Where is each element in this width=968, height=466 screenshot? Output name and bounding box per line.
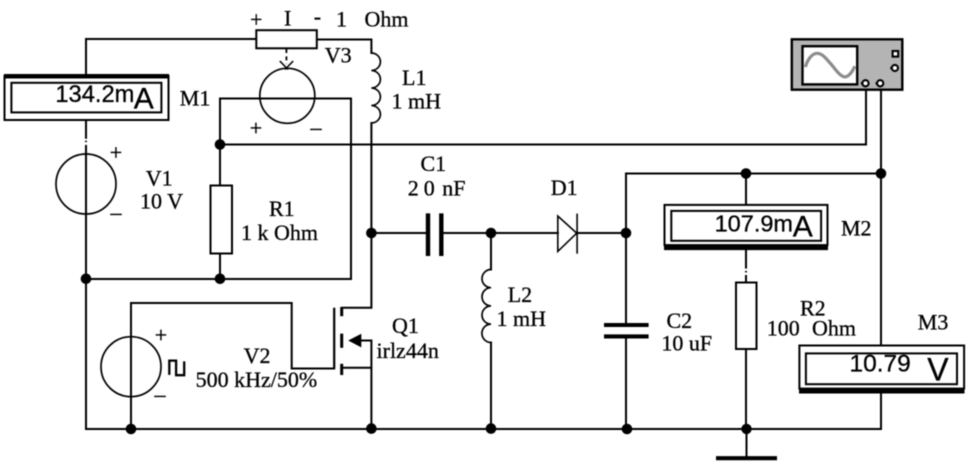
svg-text:–: – [110, 200, 123, 225]
svg-text:10 V: 10 V [140, 189, 183, 214]
svg-text:M2: M2 [841, 215, 872, 240]
svg-text:A: A [793, 211, 813, 244]
svg-text:irlz44n: irlz44n [377, 338, 439, 363]
svg-text:107.9m: 107.9m [715, 211, 793, 237]
svg-text:M1: M1 [180, 86, 211, 111]
svg-text:L1: L1 [402, 65, 426, 90]
svg-text:A: A [134, 83, 154, 116]
svg-text:0: 0 [424, 175, 435, 200]
svg-text:100: 100 [767, 316, 800, 341]
svg-text:+: + [250, 116, 262, 141]
svg-text:V: V [927, 352, 949, 388]
svg-text:C2: C2 [667, 308, 693, 333]
svg-text:–: – [310, 115, 323, 140]
svg-text:D1: D1 [551, 175, 578, 200]
svg-text:1: 1 [336, 7, 347, 32]
svg-text:V2: V2 [244, 343, 271, 368]
svg-text:-: - [314, 4, 321, 29]
svg-text:+: + [110, 140, 122, 165]
svg-text:Ohm: Ohm [365, 7, 409, 32]
svg-text:–: – [154, 382, 167, 407]
svg-text:10 uF: 10 uF [661, 330, 712, 355]
svg-text:Q1: Q1 [392, 313, 419, 338]
svg-text:C1: C1 [421, 151, 447, 176]
svg-text:10.79: 10.79 [849, 351, 910, 378]
svg-text:Ohm: Ohm [812, 316, 856, 341]
svg-text:V1: V1 [146, 166, 173, 191]
svg-text:1 k Ohm: 1 k Ohm [241, 220, 318, 245]
svg-text:R1: R1 [269, 196, 295, 221]
svg-text:1 mH: 1 mH [392, 89, 442, 114]
svg-text:V3: V3 [325, 43, 352, 68]
svg-text:500 kHz/50%: 500 kHz/50% [196, 367, 318, 392]
svg-text:M3: M3 [918, 310, 949, 335]
svg-text:nF: nF [442, 175, 465, 200]
svg-text:1 mH: 1 mH [497, 306, 547, 331]
svg-text:134.2m: 134.2m [55, 82, 134, 108]
svg-text:+: + [250, 7, 262, 32]
svg-text:L2: L2 [508, 282, 532, 307]
svg-text:2: 2 [408, 175, 419, 200]
svg-text:+: + [155, 322, 167, 347]
svg-text:I: I [284, 6, 291, 31]
